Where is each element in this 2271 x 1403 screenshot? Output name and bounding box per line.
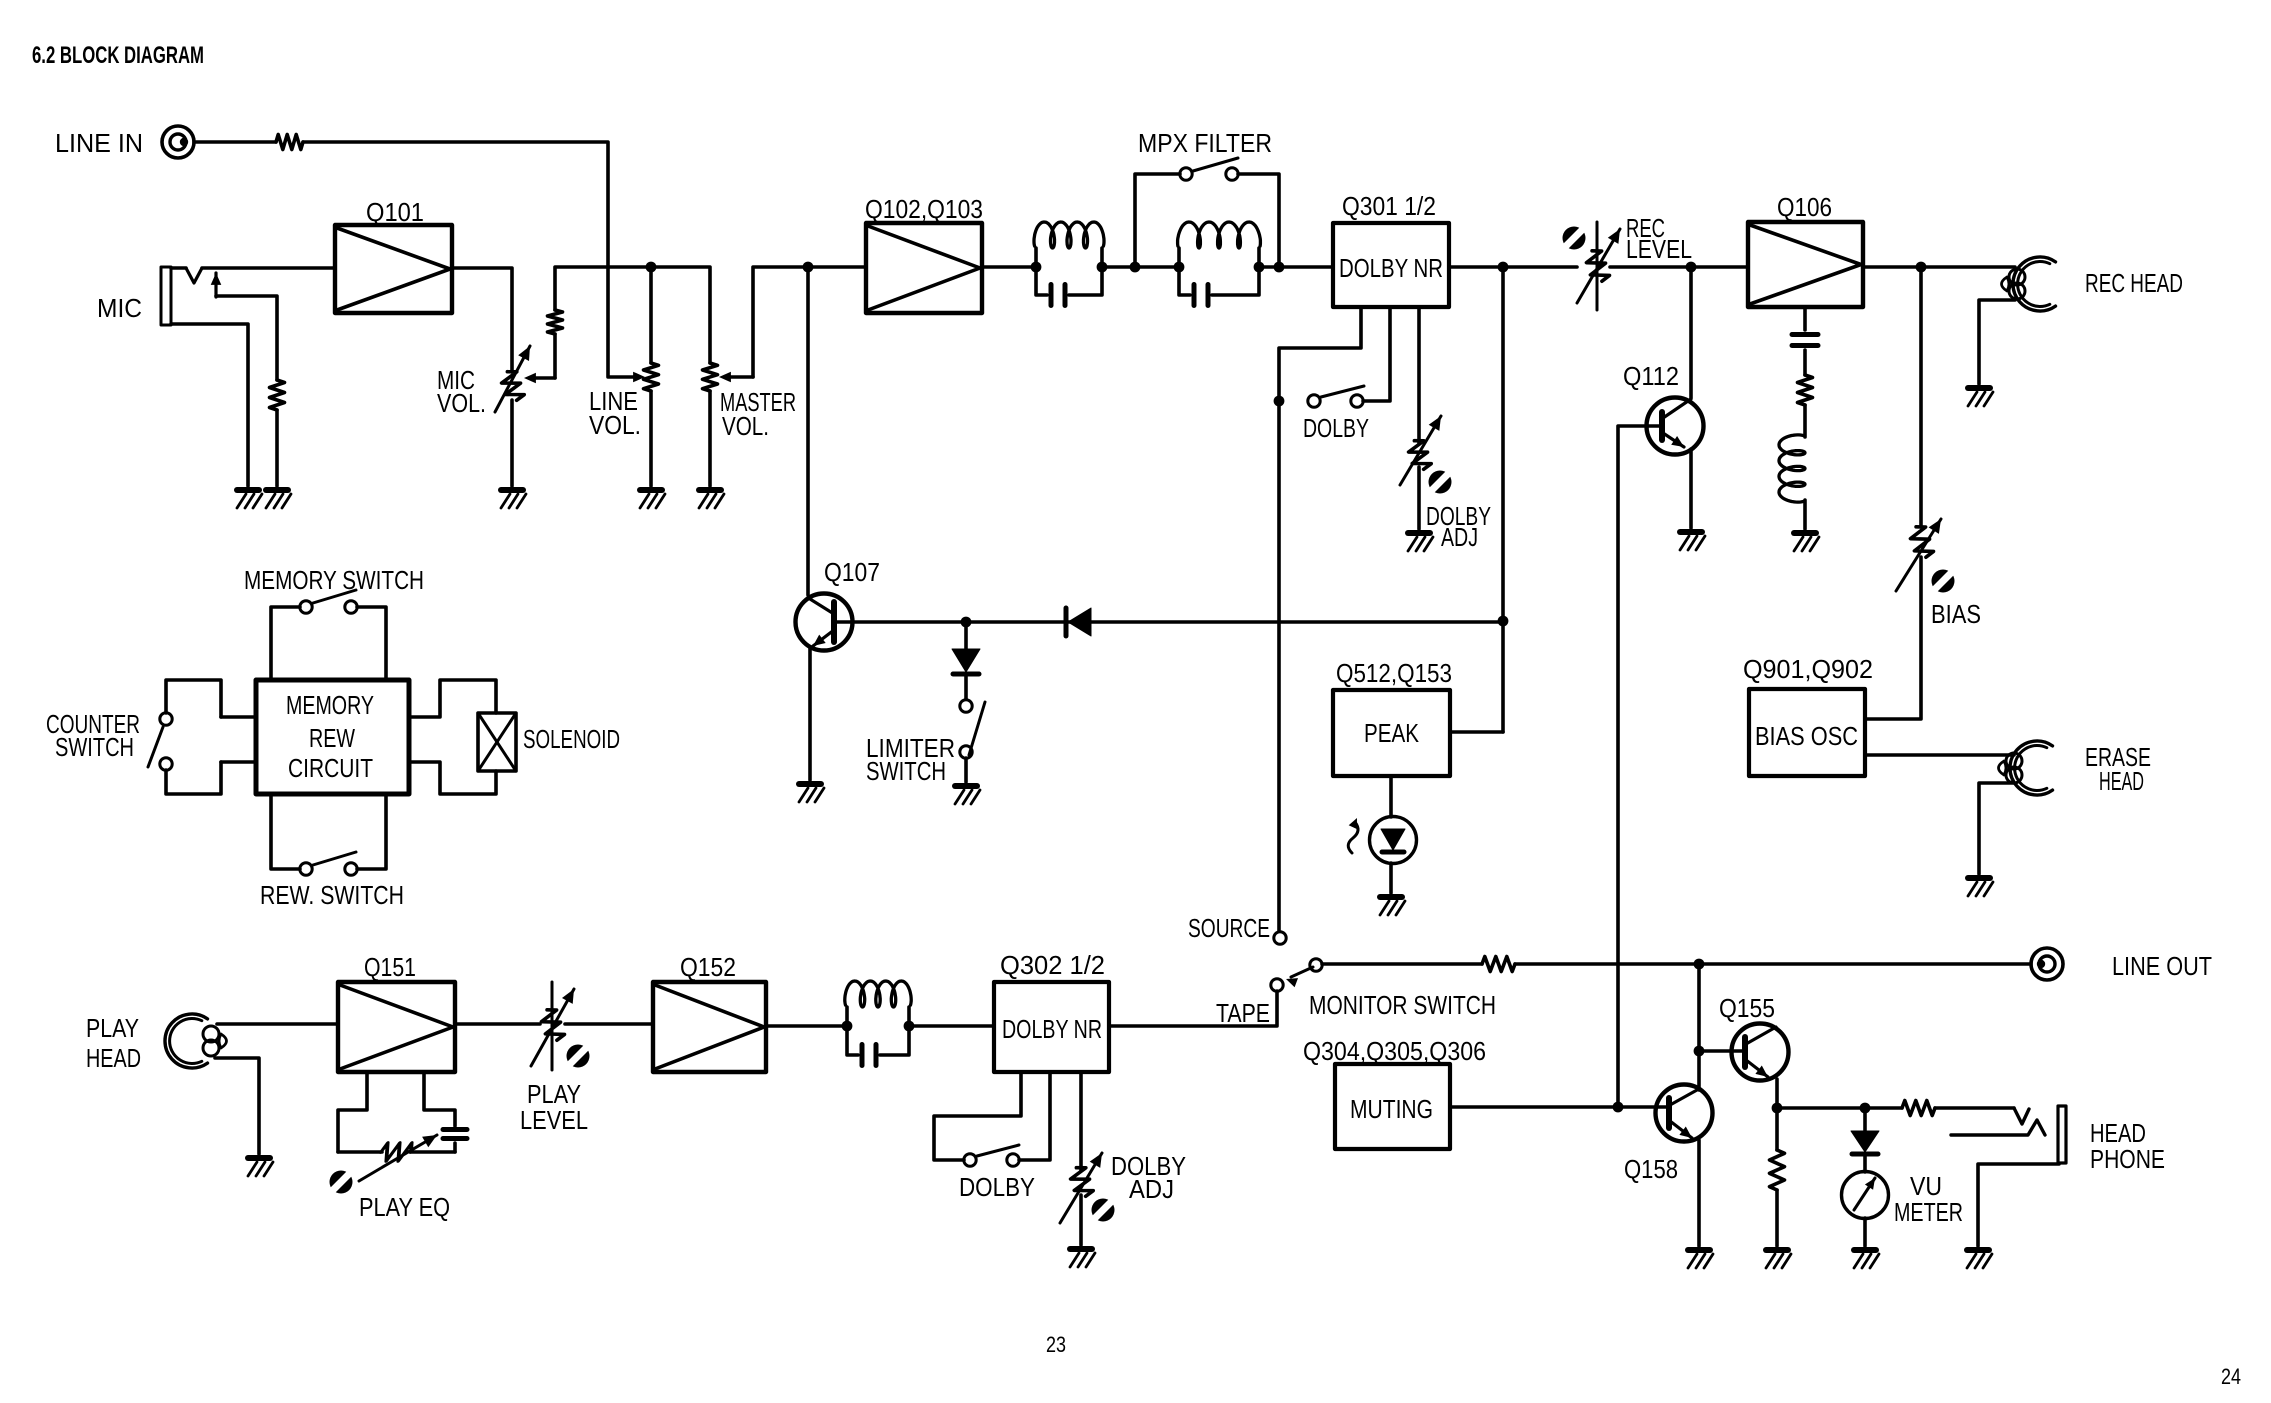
wire play head to Q151 (217, 1022, 338, 1026)
svg-text:VOL.: VOL. (437, 388, 486, 418)
ground MIC VOL (501, 490, 526, 508)
svg-text:Q901,Q902: Q901,Q902 (1743, 654, 1873, 684)
block PEAK Q512,Q153 (1333, 690, 1450, 776)
REW SWITCH lever (313, 852, 356, 865)
wire to DOLBY NR Q301 (1279, 265, 1333, 269)
node tank2 left (1174, 262, 1185, 273)
svg-text:MUTING: MUTING (1350, 1094, 1433, 1124)
svg-text:MIC: MIC (97, 293, 142, 323)
svg-text:VOL.: VOL. (589, 410, 641, 440)
REC LEVEL adjust arrow (1577, 229, 1620, 303)
svg-text:Q152: Q152 (680, 952, 736, 982)
headphone plug (2058, 1106, 2066, 1163)
wire BIAS to BIAS OSC (1865, 557, 1921, 719)
svg-text:SOURCE: SOURCE (1188, 913, 1270, 943)
PLAY LEVEL adjust arrow (531, 989, 574, 1066)
wire Q301 pin2 to switch (1363, 307, 1390, 401)
svg-text:MPX FILTER: MPX FILTER (1138, 128, 1272, 158)
arrow into LINE VOL wiper (633, 372, 645, 383)
svg-text:METER: METER (1894, 1197, 1963, 1227)
wire play eq bottom right (410, 1150, 455, 1154)
resistor R-headphone (1902, 1101, 1935, 1116)
potentiometer MASTER VOL (703, 363, 718, 391)
wire mic V contact (171, 266, 186, 270)
wire solenoid stub bottom (409, 762, 496, 794)
ground MASTER VOL (699, 490, 724, 508)
wire solenoid stub top (409, 680, 496, 717)
DOLBY switch contact right (play) (1007, 1154, 1019, 1166)
svg-text:Q151: Q151 (364, 952, 416, 982)
block MEMORY REW CIRCUIT (256, 680, 409, 794)
amplifier Q102,Q103 (866, 223, 982, 313)
resistor R-Q155 emitter (1775, 1108, 1779, 1150)
node bias-trap branch (1916, 262, 1927, 273)
wire riser to main line (555, 267, 651, 310)
node MPX return (1274, 262, 1285, 273)
svg-text:6.2 BLOCK DIAGRAM: 6.2 BLOCK DIAGRAM (32, 42, 204, 69)
BIAS adjust arrow (1896, 519, 1941, 591)
screw symbol REC LEVEL (1563, 227, 1586, 250)
wire play eq bottom left (338, 1150, 382, 1154)
svg-text:Q301 1/2: Q301 1/2 (1342, 191, 1436, 221)
PLAY HEAD (165, 1014, 208, 1068)
headphone jack ring contact (1951, 1120, 2045, 1135)
resistor R-monitor (1482, 957, 1515, 972)
node Q155 base (1694, 1046, 1705, 1057)
block BIAS OSC Q901,Q902 (1749, 689, 1865, 776)
wire play tank to Q302 (909, 1024, 994, 1028)
COUNTER SWITCH contact bottom (160, 758, 172, 770)
wire Q302 pin3 to DOLBY ADJ (play) (1079, 1072, 1083, 1170)
svg-text:REW: REW (309, 723, 355, 753)
svg-text:SOLENOID: SOLENOID (523, 724, 620, 754)
wire to coil (1803, 405, 1807, 437)
MASTER VOL wiper arrow (726, 375, 753, 379)
svg-text:BIAS: BIAS (1931, 599, 1981, 629)
transistor Q155 (1732, 1024, 1789, 1081)
node play tank right (904, 1021, 915, 1032)
svg-text:BIAS OSC: BIAS OSC (1755, 721, 1858, 751)
wire REC HEAD return (1979, 300, 2015, 384)
svg-text:Q112: Q112 (1623, 361, 1679, 391)
DOLBY ADJ adjust arrow (rec) (1400, 416, 1441, 485)
wire tank1 to MPX branch (1102, 265, 1135, 269)
potentiometer REC LEVEL (1596, 222, 1599, 310)
svg-text:ADJ: ADJ (1129, 1174, 1174, 1204)
svg-text:REC HEAD: REC HEAD (2085, 268, 2183, 298)
play LC tank inductor (845, 1007, 849, 1026)
wire VU to ground (1863, 1218, 1867, 1246)
svg-text:Q302 1/2: Q302 1/2 (1000, 950, 1105, 980)
node dolby-switch (1274, 396, 1285, 407)
wire MPX bypass up (1135, 174, 1180, 267)
node tank2 right (1254, 262, 1265, 273)
wire Q112 base to muting rail (1618, 426, 1662, 1107)
potentiometer LINE VOL (644, 363, 659, 391)
wire Q302 pin1 (934, 1072, 1021, 1160)
wire Q302 pin2 (1019, 1072, 1050, 1160)
screw symbol BIAS (1932, 570, 1955, 593)
wire Q155 emitter down (1775, 1079, 1779, 1108)
wire branch down to peak/limiter line (1501, 267, 1505, 732)
ground DOLBY ADJ (rec) (1408, 533, 1433, 551)
svg-text:Q155: Q155 (1719, 993, 1775, 1023)
MIC jack (161, 267, 171, 325)
wire Q106 out to REC HEAD (1863, 265, 2015, 269)
wire MASTER wiper to Q102 (753, 267, 866, 377)
svg-text:MEMORY SWITCH: MEMORY SWITCH (244, 565, 424, 595)
wire mic to Q101 input (202, 266, 335, 270)
PLAY EQ adjust arrow (359, 1135, 437, 1181)
inductor under Q106 (1779, 435, 1805, 502)
wire rew switch loop left (271, 794, 300, 869)
wire Q151 out (455, 1022, 540, 1026)
wire tank2 to bypass node (1259, 265, 1279, 269)
svg-text:Q106: Q106 (1777, 192, 1832, 222)
LC tank 1 capacitor (1036, 267, 1047, 295)
diode D-VU (1863, 1108, 1867, 1131)
LINE OUT jack (2031, 948, 2063, 980)
screw symbol PLAY EQ (330, 1171, 353, 1194)
wire counter bracket bottom (166, 762, 221, 794)
wire Q107 to limiter diode line (836, 620, 1503, 624)
ground Q107 (799, 784, 824, 802)
wire limiter switch to ground (964, 758, 968, 782)
wire Q102 out to tank1 (982, 265, 1036, 269)
wire Q151 feedback pin right (424, 1072, 455, 1126)
wire play head return (215, 1058, 259, 1154)
potentiometer DOLBY ADJ (rec) (1406, 438, 1432, 472)
ground LINE VOL (640, 490, 665, 508)
ground mic-R (266, 490, 291, 508)
svg-text:MONITOR SWITCH: MONITOR SWITCH (1309, 990, 1496, 1020)
MPX switch lever (1193, 158, 1238, 171)
svg-text:DOLBY: DOLBY (1303, 413, 1369, 443)
COUNTER SWITCH lever (148, 727, 163, 767)
svg-text:PEAK: PEAK (1364, 718, 1420, 748)
wire monitor line continue (1515, 962, 2031, 966)
wire MPX bypass down (1238, 174, 1279, 267)
wire resistor to corner, down to LINE VOL wiper (303, 142, 637, 377)
resistor under Q106 (1798, 375, 1813, 405)
node lineout branch (1694, 959, 1705, 970)
screw symbol DOLBY ADJ (play) (1092, 1199, 1115, 1222)
wire counter stub top (221, 715, 256, 719)
ground DOLBY ADJ (play) (1070, 1249, 1095, 1267)
wire mic arrow branch to resistor (216, 296, 277, 380)
DOLBY switch lever (play) (977, 1145, 1019, 1156)
solenoid (478, 713, 516, 771)
svg-text:PHONE: PHONE (2090, 1144, 2165, 1174)
svg-text:HEAD: HEAD (86, 1043, 141, 1073)
potentiometer DOLBY ADJ (play) (1068, 1165, 1094, 1199)
ground Q158 (1688, 1250, 1713, 1268)
node rec-detector branch (1498, 262, 1509, 273)
svg-text:LEVEL: LEVEL (520, 1105, 588, 1135)
svg-text:Q158: Q158 (1624, 1154, 1678, 1184)
wire rew switch loop right (357, 794, 386, 869)
MIC VOL wiper arrow (534, 376, 555, 380)
svg-text:LINE OUT: LINE OUT (2112, 951, 2212, 981)
LED peak indicator (1370, 817, 1417, 864)
MEMORY SWITCH contact right (345, 601, 357, 613)
wire to ground (275, 410, 279, 486)
wire memory switch loop left (271, 607, 300, 680)
screw symbol PLAY LEVEL (567, 1045, 590, 1068)
wire Q101 output to MIC VOL (452, 268, 512, 372)
wire DOLBY ADJ play to ground (1079, 1195, 1083, 1245)
ERASE HEAD (2010, 741, 2053, 795)
svg-text:24: 24 (2221, 1364, 2241, 1389)
resistor R-mic (270, 380, 285, 410)
ground Q155 emitter (1766, 1250, 1791, 1268)
svg-text:PLAY EQ: PLAY EQ (359, 1192, 450, 1222)
svg-text:Q512,Q153: Q512,Q153 (1336, 658, 1452, 688)
transistor Q112 (1647, 398, 1704, 455)
wire coil to ground (1803, 500, 1807, 529)
wire BIAS OSC to ERASE HEAD (1865, 753, 2014, 757)
resistor R-micvol (548, 310, 563, 334)
wire to PEAK block (1450, 730, 1503, 734)
svg-text:DOLBY NR: DOLBY NR (1002, 1014, 1102, 1044)
block DOLBY NR Q302 1/2 (994, 982, 1109, 1072)
wire main line to MASTER corner (651, 267, 710, 363)
ground headphone (1967, 1250, 1992, 1268)
svg-text:DOLBY: DOLBY (959, 1172, 1035, 1202)
LC tank 2 capacitor (1179, 267, 1190, 295)
potentiometer PLAY LEVEL (551, 982, 554, 1070)
potentiometer PLAY EQ (377, 1143, 414, 1161)
ground play head (248, 1158, 273, 1176)
wire Q301 pin3 to DOLBY ADJ (1417, 307, 1421, 443)
REW SWITCH contact left (300, 863, 312, 875)
node tank1 right (1097, 262, 1108, 273)
VU METER (1842, 1172, 1889, 1219)
svg-text:Q101: Q101 (366, 197, 424, 227)
LIMITER SWITCH lever (969, 702, 985, 755)
wire LINE IN to resistor (194, 140, 276, 144)
amplifier Q101 (335, 225, 452, 313)
wire LED to ground (1389, 863, 1393, 893)
screw symbol DOLBY ADJ (rec) (1429, 471, 1452, 494)
node main-LINEVOL (646, 262, 657, 273)
amplifier Q106 (1748, 222, 1863, 307)
svg-text:Q304,Q305,Q306: Q304,Q305,Q306 (1303, 1036, 1486, 1066)
node play tank left (842, 1021, 853, 1032)
wire Q158 emitter to ground (1697, 1140, 1701, 1246)
wire PEAK to LED (1389, 776, 1393, 817)
wire mic sleeve (171, 324, 248, 486)
svg-text:Q102,Q103: Q102,Q103 (865, 194, 983, 224)
wire Q301 out (1449, 265, 1577, 269)
block DOLBY NR Q301 1/2 (1333, 223, 1449, 307)
LINE IN jack J1 (162, 126, 194, 158)
node VU branch (1860, 1103, 1871, 1114)
svg-text:PLAY: PLAY (86, 1013, 139, 1043)
node limiter diode branch (961, 617, 972, 628)
ground ERASE HEAD (1968, 878, 1993, 896)
LIMITER SWITCH contact top (960, 700, 972, 712)
wire counter bracket top (166, 680, 221, 717)
MPX switch contact left (1180, 168, 1192, 180)
node limiter line (1498, 616, 1509, 627)
node MPX branch (1130, 262, 1141, 273)
node Q107 branch (803, 262, 814, 273)
DOLBY switch contact left (rec) (1308, 395, 1320, 407)
svg-text:23: 23 (1046, 1332, 1066, 1357)
block MUTING Q304,Q305,Q306 (1335, 1064, 1450, 1149)
node headphone rail (1772, 1103, 1783, 1114)
DOLBY switch contact right (rec) (1351, 395, 1363, 407)
arrow mic contact (214, 273, 217, 297)
wire MPX to tank2 (1135, 265, 1179, 269)
DOLBY ADJ adjust arrow (play) (1060, 1153, 1102, 1223)
transistor Q158 (1656, 1085, 1713, 1142)
MEMORY SWITCH lever (313, 590, 356, 603)
MPX switch contact right (1226, 168, 1238, 180)
svg-text:Q107: Q107 (824, 557, 880, 587)
wire Q158 collector up (1697, 964, 1701, 1090)
capacitor under Q106 (1803, 307, 1807, 330)
wire TAPE contact to play line (1109, 991, 1277, 1026)
MONITOR SWITCH lever arrow (1291, 967, 1313, 977)
wire monitor line to LINE OUT (1322, 962, 1482, 966)
amplifier Q152 (653, 982, 766, 1072)
wire to headphone jack (1935, 1106, 2014, 1110)
ground bias-trap (1794, 533, 1819, 551)
MEMORY SWITCH contact left (300, 601, 312, 613)
svg-text:SWITCH: SWITCH (55, 732, 134, 762)
headphone jack tip contact (2014, 1108, 2029, 1124)
node tank1 left (1031, 262, 1042, 273)
wire Q112 collector drop (1689, 267, 1693, 398)
wire Q301 pin1 (1279, 307, 1361, 931)
COUNTER SWITCH contact top (160, 713, 172, 725)
ground Q112 emitter (1680, 532, 1705, 550)
wire Q155 base (1699, 1049, 1745, 1053)
MIC VOL adjust arrow (495, 346, 530, 412)
potentiometer MIC VOL (499, 369, 525, 403)
ground peak LED (1380, 897, 1405, 915)
wire Q151 feedback pin left (338, 1072, 367, 1152)
ground REC HEAD (1968, 388, 1993, 406)
svg-text:REW. SWITCH: REW. SWITCH (260, 880, 404, 910)
svg-text:VOL.: VOL. (722, 411, 769, 441)
wire DOLBY ADJ to ground (1417, 467, 1421, 529)
amplifier Q151 (338, 982, 455, 1072)
svg-text:CIRCUIT: CIRCUIT (288, 753, 373, 783)
wire REC LEVEL to Q106 (1610, 265, 1748, 269)
DOLBY switch contact left (play) (964, 1154, 976, 1166)
svg-text:LEVEL: LEVEL (1626, 234, 1692, 264)
LC tank 1 inductor (1034, 248, 1038, 267)
svg-text:SWITCH: SWITCH (866, 756, 946, 786)
svg-text:HEAD: HEAD (2099, 766, 2144, 796)
LC tank 2 (MPX filter) inductor (1177, 248, 1181, 267)
MONITOR SWITCH common contact (1310, 959, 1322, 971)
transistor Q107 (796, 594, 853, 651)
potentiometer BIAS (1907, 524, 1934, 560)
DOLBY switch lever (rec) (1321, 386, 1364, 397)
wire ERASE HEAD return (1979, 783, 2014, 874)
svg-text:MEMORY: MEMORY (286, 690, 374, 720)
svg-text:LINE IN: LINE IN (55, 128, 143, 158)
wire headphone rail (1777, 1106, 1902, 1110)
wire headphone sleeve to ground (1978, 1164, 2059, 1246)
wire Q107 emitter to ground (808, 648, 812, 780)
diode D-shunt at limiter switch (964, 622, 968, 649)
wire Q152 out to play tank (766, 1024, 847, 1028)
wire MIC VOL wiper riser (553, 334, 557, 378)
resistor R-linein (276, 135, 303, 150)
LIMITER SWITCH contact bottom (960, 746, 972, 758)
wire branch down to Q107 (806, 267, 810, 595)
diode D-limiter (series) (1068, 608, 1091, 636)
ground limiter switch (955, 786, 980, 804)
REC HEAD (2013, 257, 2056, 311)
node muting rail (1613, 1102, 1624, 1113)
wire memory switch loop right (357, 607, 386, 680)
ground VU METER (1854, 1250, 1879, 1268)
REW SWITCH contact right (345, 863, 357, 875)
svg-text:DOLBY NR: DOLBY NR (1339, 253, 1443, 283)
wire counter stub bottom (221, 760, 256, 764)
wire MUTING to Q158 base (1450, 1105, 1668, 1109)
ground mic sleeve (237, 490, 262, 508)
capacitor play eq (443, 1127, 467, 1132)
wire bias line down (1919, 267, 1923, 527)
node Q112 branch (1686, 262, 1697, 273)
play LC tank capacitor (847, 1026, 858, 1055)
svg-text:ADJ: ADJ (1441, 522, 1478, 552)
wire PLAY LEVEL to Q152 (565, 1022, 653, 1026)
svg-text:TAPE: TAPE (1216, 998, 1270, 1028)
LED arrow squiggle (1348, 822, 1358, 853)
